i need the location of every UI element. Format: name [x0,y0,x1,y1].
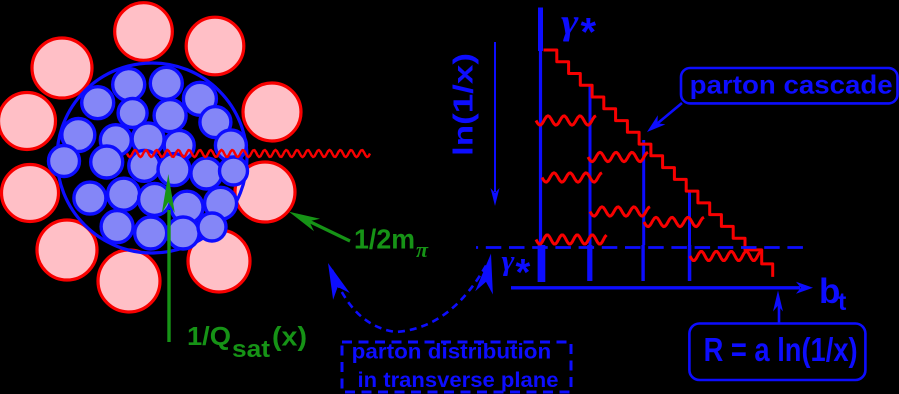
b_t axis baseline [511,286,800,289]
main vertical line thick bottom (gamma* probe) [538,245,546,282]
dashed curve left arrowhead [328,263,350,300]
parton cascade box [681,68,898,103]
gluon rung E [644,217,704,226]
parton circle s17 [191,158,222,189]
green arrow 1/Qsat shaft [167,210,170,342]
parton cascade pointer line [652,103,682,128]
parton circle s8 [62,119,95,152]
svg-text:γ: γ [561,2,579,42]
parton distribution dashed box [342,342,571,392]
gluon rung A [536,116,596,125]
parton circle s21 [139,183,171,215]
nucleon pion-cloud circle P8 bottom [98,250,160,312]
parton circle s13 [49,146,80,177]
gluon rung C [542,173,602,182]
svg-text:(x): (x) [272,322,307,352]
parton vertical line 3 [642,140,645,245]
gluon rung G [690,252,761,261]
parton circle s15 [129,150,160,181]
parton circle s4 [82,87,114,119]
parton circle s22 [171,191,203,223]
R box arrow head [773,291,783,312]
svg-text:1/2m: 1/2m [354,224,415,255]
svg-text:1/Q: 1/Q [187,321,231,351]
nucleon pion-cloud circle P1 top [115,3,173,61]
axis down-arrow head [491,188,500,206]
parton circle s6 [154,100,186,132]
dashed saturation line [476,246,806,249]
main vertical line (thin middle) [539,51,542,245]
parton circle s12 [215,130,246,161]
parton vertical line 2 [589,84,592,245]
parton circle s23 [205,187,237,219]
parton circle s9 [100,125,131,156]
nucleon pion-cloud circle P6 bottom-left [37,220,97,280]
label 1/2m pi [354,224,429,263]
gamma* photon thick top segment [538,8,543,52]
parton cascade staircase (photon ladder) [544,50,773,277]
label 1/Qsat(x) [187,321,307,363]
parton circle s11 [164,130,194,160]
parton vertical line 4 [688,190,691,245]
svg-text:in transverse plane: in transverse plane [358,369,559,392]
nucleon pion-cloud circle P2 top-right [186,17,244,75]
parton line 4 thick bottom [688,245,692,281]
R box arrow shaft [778,303,781,323]
parton circle s3 [183,82,216,115]
nucleon pion-cloud circle P4 left-upper [0,93,56,150]
svg-text:parton distribution: parton distribution [352,341,552,364]
parton circle s5 [118,99,147,128]
svg-text:ln(1/x): ln(1/x) [448,53,479,156]
svg-text:γ: γ [502,245,516,277]
svg-text:parton cascade: parton cascade [690,70,893,100]
parton circle s26 [167,217,199,249]
svg-text:R = a ln(1/x): R = a ln(1/x) [704,331,858,368]
parton line 2 thick bottom [587,245,592,281]
nucleon pion-cloud circle P5 right-upper [243,83,301,141]
parton circle s19 [74,182,106,214]
gluon rung B [588,152,648,161]
nucleus boundary circle [57,63,247,253]
green arrow 1/2mpi shaft [296,215,350,241]
parton circle s25 [135,217,167,249]
dashed curve right arrowhead [475,254,493,295]
R box [689,324,865,381]
parton circle s7 [200,107,231,138]
nucleon pion-cloud circle P7 left-lower [2,165,59,222]
green arrow 1/Qsat head [162,174,175,213]
green arrow 1/2mpi head [289,212,320,232]
nucleon pion-cloud circle P3 top-left [32,38,92,98]
parton circle s18 [220,157,248,185]
parton line 3 thick bottom [641,245,644,281]
gluon rung D [590,207,650,216]
parton circle s2 [150,67,182,99]
parton circle s1 [113,69,145,101]
svg-text:sat: sat [232,336,270,363]
photon wavy line through nucleus [127,150,370,157]
svg-text:π: π [416,237,429,262]
parton circle s24 [101,211,133,243]
gamma* bottom label [502,245,531,294]
parton circle s20 [108,178,140,210]
parton cascade pointer head [647,115,665,132]
dashed curve arrow between figures [332,262,488,332]
svg-text:*: * [581,11,597,55]
parton circle s16 [158,154,190,186]
parton circle s27 [198,213,226,241]
b_t axis arrowhead [796,282,813,294]
axis down-arrow line [494,42,496,192]
label b_t [819,272,847,316]
nucleon pion-cloud circle P10 right-lower [235,162,295,222]
svg-text:t: t [838,288,847,316]
gluon rung F [536,235,607,244]
nucleon pion-cloud circle P9 bottom-right [188,230,250,292]
parton circle s14 [91,146,123,178]
parton circle s10 [132,123,164,155]
gamma* top label [561,2,597,55]
